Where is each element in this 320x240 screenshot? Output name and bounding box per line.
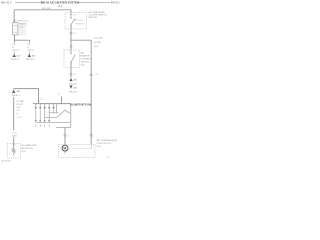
wire stub to arrow left	[13, 52, 15, 54]
pin stubs bottom row	[35, 125, 37, 127]
svg-text:PRESS SW: PRESS SW	[75, 23, 85, 25]
connector tick C2	[70, 73, 73, 75]
wire stub right branch	[29, 40, 31, 43]
svg-text:A/C: A/C	[81, 52, 85, 55]
svg-text:DB/OR: DB/OR	[27, 50, 34, 52]
wire: node to right corner	[71, 39, 91, 41]
svg-text:BK/WT: BK/WT	[16, 104, 23, 106]
off-page arrow A22 right	[28, 54, 31, 57]
off-page arrow A22 left	[13, 54, 16, 57]
connector ticks on right drop	[90, 73, 93, 75]
pin arrowhead bottom	[44, 120, 46, 122]
wire: pin from A/C switch area	[61, 96, 63, 103]
switch riser	[56, 104, 58, 113]
pin 5	[53, 104, 55, 107]
entry tick	[12, 144, 15, 146]
svg-text:A3 12RD: A3 12RD	[42, 7, 51, 10]
wire stub to arrow right	[28, 52, 30, 54]
wire resumes	[13, 137, 15, 145]
svg-text:HEATER: HEATER	[81, 55, 90, 58]
svg-text:8W-42-9: 8W-42-9	[69, 84, 78, 86]
svg-text:LO M2: LO M2	[16, 117, 23, 119]
junction block shading	[13, 23, 27, 36]
tap wire hi	[49, 112, 58, 114]
svg-text:A/C COMPRESSOR: A/C COMPRESSOR	[97, 139, 117, 142]
svg-text:8W-42-2: 8W-42-2	[26, 59, 35, 61]
wire: node down to A/C switch	[70, 40, 72, 50]
svg-text:(XJ): (XJ)	[94, 46, 98, 48]
header rule right	[78, 2, 110, 4]
wire inside	[13, 145, 15, 148]
connector C111 ticks	[13, 19, 16, 21]
svg-text:SWITCH: SWITCH	[81, 62, 90, 64]
tap wire mid	[45, 117, 57, 119]
pin 1	[35, 104, 37, 107]
off-page arrow A22 mid	[12, 90, 15, 93]
svg-text:(XJ): (XJ)	[97, 146, 101, 148]
wiper diagonal	[56, 110, 70, 117]
link coil to right wire	[68, 147, 91, 149]
svg-text:M: M	[64, 147, 67, 151]
svg-text:80a57025: 80a57025	[1, 160, 12, 162]
svg-text:(XJ): (XJ)	[22, 151, 26, 153]
tap wire low	[36, 121, 71, 123]
svg-text:(XJ): (XJ)	[58, 5, 63, 8]
wire: left drop to fuse	[13, 10, 15, 23]
pin arrowhead bottom	[39, 120, 41, 122]
wire: splice bar	[15, 39, 30, 41]
A/C switch dashed box	[64, 50, 80, 67]
switch contact top	[70, 50, 72, 53]
svg-text:C1: C1	[68, 135, 70, 137]
svg-text:8W-42 2: 8W-42 2	[1, 1, 12, 5]
wire stub left branch	[14, 40, 16, 43]
connector tick	[70, 45, 73, 47]
svg-text:BLOWER MTR SW: BLOWER MTR SW	[70, 104, 92, 107]
pin ticks top	[70, 13, 73, 15]
svg-text:C9 12: C9 12	[12, 133, 18, 135]
svg-text:8W-42-2: 8W-42-2	[11, 59, 20, 61]
node S1	[14, 40, 15, 41]
bottom-left dashed box	[7, 144, 21, 159]
svg-text:A/C LOW: A/C LOW	[75, 19, 83, 22]
svg-text:(XJ): (XJ)	[81, 65, 85, 67]
svg-text:FUSE 5: FUSE 5	[19, 24, 27, 26]
svg-text:8W-42-3: 8W-42-3	[111, 1, 120, 5]
wire: blower feed drop	[64, 128, 66, 145]
blower motor dashed box	[59, 144, 96, 157]
header rule left	[15, 2, 42, 4]
pin 4	[48, 104, 50, 107]
blower switch bus	[33, 103, 71, 105]
svg-text:A3 12BK: A3 12BK	[94, 37, 103, 40]
svg-text:C7 12B: C7 12B	[16, 101, 24, 103]
wire: stub to arrow	[13, 89, 15, 90]
svg-text:SWITCH: SWITCH	[89, 17, 98, 19]
resistor zigzag	[12, 148, 15, 155]
svg-text:FUSED B(+): FUSED B(+)	[17, 21, 29, 23]
switch blade	[71, 54, 75, 62]
wire: feed to control, horizontal	[14, 88, 39, 90]
svg-text:15A: 15A	[19, 26, 23, 29]
svg-text:8W-42-9: 8W-42-9	[69, 92, 78, 94]
svg-text:12BK: 12BK	[12, 135, 18, 137]
wire: long right drop	[90, 40, 92, 144]
off-page arrow A32	[69, 86, 72, 89]
off-page arrow A31	[69, 78, 72, 81]
switch blade	[71, 19, 75, 25]
connector ticks on blower feed	[63, 134, 66, 136]
svg-text:RESISTOR: RESISTOR	[22, 148, 34, 150]
A/C pressure switch dashed box	[65, 13, 87, 30]
wire: A/C switch out	[70, 63, 72, 78]
wire: switch to node	[70, 25, 72, 40]
svg-text:CONTROL: CONTROL	[81, 59, 92, 61]
right riser of switch	[70, 104, 72, 128]
connector tick C2	[70, 31, 73, 33]
bottom link to blower wire	[56, 127, 71, 129]
pin 2	[39, 104, 41, 107]
node A	[70, 40, 71, 41]
fuse F5 body	[13, 23, 18, 35]
pin arrowhead bottom	[35, 120, 37, 122]
svg-text:(XJ): (XJ)	[16, 107, 20, 109]
pin 3	[44, 104, 46, 107]
wire: top horizontal feed	[14, 9, 71, 11]
switch contacts	[70, 13, 72, 17]
svg-text:BLOWER MTR: BLOWER MTR	[22, 145, 37, 147]
pin arrowhead bottom	[48, 120, 50, 122]
svg-text:DB/OR: DB/OR	[12, 50, 19, 52]
svg-text:WT/BK: WT/BK	[94, 42, 101, 44]
svg-text:CLUTCH COIL: CLUTCH COIL	[97, 143, 112, 145]
wire: control feed drop	[38, 89, 40, 104]
blower motor symbol	[62, 145, 68, 151]
wire: drop into pressure switch	[70, 10, 72, 13]
wire: fuse output	[14, 35, 16, 41]
wire: left branch down	[13, 97, 15, 130]
svg-text:8W-42-2: 8W-42-2	[12, 95, 21, 97]
